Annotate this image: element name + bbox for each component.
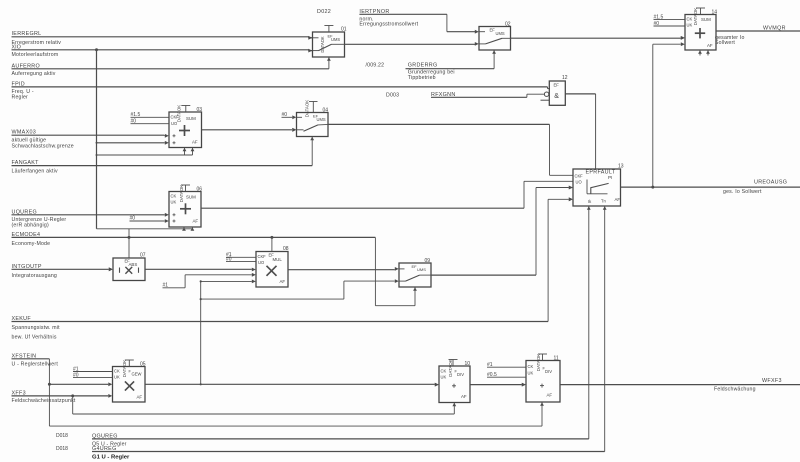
- svg-text:Economy-Mode: Economy-Mode: [12, 241, 51, 247]
- symbol U11 small plus: [540, 384, 544, 388]
- svg-text:Spannungsistw. mit: Spannungsistw. mit: [12, 325, 61, 331]
- label U6 AF: [193, 218, 199, 223]
- label U2 UMS: [496, 31, 505, 36]
- label U11 param #1: [487, 362, 493, 368]
- wire U14 output WVMQR: [716, 30, 800, 32]
- label U14 UK: [687, 23, 693, 28]
- node IERTPNOR input label: [359, 9, 418, 27]
- node junction XFSTEIN at U5 input: [48, 383, 51, 386]
- label U3 CKF: [171, 114, 180, 119]
- node INTGOUTP input label: [12, 264, 58, 279]
- wire U6 enable link line: [97, 228, 193, 230]
- svg-text:04: 04: [323, 107, 329, 113]
- label U10 AF: [461, 394, 467, 399]
- label U6 param #0: [130, 216, 136, 222]
- pin U10 input arrow: [435, 383, 439, 387]
- svg-text:WMAX03: WMAX03: [12, 129, 37, 135]
- wire U10 output to divider U11 input 3: [470, 383, 526, 387]
- node WMAX03 input label: [12, 129, 74, 149]
- label U4 designator 04: [323, 107, 329, 113]
- svg-text:bew. Uf Verhältnis: bew. Uf Verhältnis: [12, 334, 57, 340]
- pin U3 bottom arrows: [183, 148, 195, 152]
- svg-text:UK: UK: [528, 371, 534, 376]
- label U7 ABS: [129, 262, 138, 267]
- pin U13 input 4 arrow: [569, 197, 573, 201]
- node QGUREG net label: [92, 433, 127, 447]
- wire U6 top stub: [181, 185, 190, 192]
- svg-text:UK: UK: [171, 200, 177, 205]
- wire GRDERRG to switch U2 enable: [406, 50, 495, 69]
- node D003 sheet reference: [386, 92, 399, 98]
- label U11 param #0.5: [487, 372, 497, 378]
- wire vertical bus x200 down: [200, 281, 202, 384]
- svg-text:U - Reglerstellwert: U - Reglerstellwert: [12, 361, 59, 367]
- label U3 param #0: [131, 118, 137, 124]
- node junction ECMODE at U8 top: [270, 236, 273, 239]
- svg-text:08: 08: [283, 246, 289, 252]
- label U1 DATAOK: [320, 36, 325, 52]
- svg-text:CK: CK: [441, 368, 447, 373]
- pin U10 enable arrow: [452, 403, 456, 407]
- svg-text:UO: UO: [171, 121, 177, 126]
- wire U5 param #0: [73, 377, 113, 379]
- label U14 CK: [687, 17, 693, 22]
- wire U1 output to U2 input 2: [345, 42, 479, 46]
- label U8 param #1: [226, 252, 232, 258]
- wire XIO vertical branch bus: [96, 50, 98, 229]
- svg-text:03: 03: [197, 107, 203, 113]
- wire U3 param #0: [131, 123, 170, 125]
- svg-text:06: 06: [197, 186, 203, 192]
- svg-text:05: 05: [140, 361, 146, 367]
- svg-text:UK: UK: [441, 374, 447, 379]
- wire U4 output to controller U13 CKF input: [328, 124, 573, 175]
- label U9 UMS: [417, 267, 426, 272]
- svg-text:D003: D003: [386, 92, 399, 98]
- label U12 EF: [554, 83, 560, 88]
- label U5 CK: [114, 369, 120, 374]
- controller U13 PI body: [573, 169, 621, 206]
- label U3 SUM: [186, 116, 196, 121]
- label U4 param #0: [282, 112, 288, 118]
- svg-text:DATAOK: DATAOK: [305, 100, 310, 117]
- label U5 GEW: [129, 368, 142, 376]
- label U12 designator 12: [562, 75, 568, 81]
- label U3 param #1.5: [131, 112, 141, 118]
- label U2 EF: [490, 27, 496, 32]
- wire FPID to AND gate U12 input 1: [12, 87, 551, 89]
- node IERREGRL input label: [12, 31, 62, 51]
- pin U6 bottom arrows: [182, 227, 194, 231]
- svg-text:Schwachlastschw.grenze: Schwachlastschw.grenze: [12, 144, 74, 150]
- symbol U8 X: [267, 266, 277, 276]
- wire U3 param #1.5: [131, 116, 170, 118]
- wire U3 top stub: [181, 106, 190, 113]
- wire XFF3 enable line to divider U10: [73, 396, 455, 414]
- pin U1 input 2 arrow: [308, 49, 312, 53]
- svg-text:EF: EF: [490, 27, 496, 32]
- node RFXGNN net label: [431, 92, 456, 98]
- svg-text:D022: D022: [317, 9, 331, 15]
- label U14 param #0: [654, 21, 660, 27]
- wire UGUREG to adder U6 input 1: [12, 213, 169, 217]
- wire U9 output to controller U13 input 3: [431, 186, 573, 276]
- wire U8 output to switch U9 input 1: [288, 267, 399, 271]
- wire U4 param #0: [282, 115, 297, 119]
- wire U5 param #1: [73, 371, 113, 373]
- label U5 AF: [137, 395, 143, 400]
- wire U11 top stub: [538, 354, 547, 361]
- svg-text:CKF: CKF: [258, 254, 267, 259]
- label U11 AF: [547, 392, 553, 397]
- label U13 CKF: [575, 174, 584, 179]
- pin U14 bottom arrows: [698, 50, 710, 54]
- node junction bus to U9 line: [200, 298, 202, 300]
- wire FANGAKT to switch U4 enable: [12, 137, 313, 166]
- wire bus tap to switch U9 input 2: [201, 279, 399, 299]
- svg-text:SUM: SUM: [186, 116, 196, 121]
- wire ECMODE main run: [12, 236, 376, 238]
- svg-text:AF: AF: [707, 43, 713, 48]
- svg-text:UMS: UMS: [317, 117, 326, 122]
- wire U5 output to divider U10 input: [145, 383, 439, 387]
- label U13 UO: [576, 180, 582, 185]
- node param #1 label mid: [163, 282, 169, 288]
- svg-text:Feldschwächeinsatzpunkt: Feldschwächeinsatzpunkt: [12, 398, 76, 404]
- node junction XFF3 branch: [71, 394, 74, 397]
- svg-text:/009.22: /009.22: [366, 62, 385, 68]
- svg-text:01: 01: [341, 27, 347, 33]
- node UGUREG input label: [12, 209, 67, 228]
- node WVMQR output label: [715, 26, 786, 46]
- label U10 DIV: [455, 369, 465, 377]
- svg-text:UO: UO: [576, 180, 582, 185]
- label U10 UK: [441, 374, 447, 379]
- switch U9 contacts: [399, 269, 431, 281]
- node junction XIO branch: [95, 48, 98, 51]
- label U3 UO: [171, 121, 177, 126]
- svg-text:MUL: MUL: [273, 257, 283, 262]
- node D018 sheet reference 2: [56, 446, 68, 452]
- node junction ECMODE at U7 riser: [128, 236, 131, 239]
- node junction XIO bus at U3 enable line: [96, 154, 98, 156]
- wire XFSTEIN down branch: [12, 359, 50, 426]
- svg-text:CKF: CKF: [171, 114, 180, 119]
- svg-text:DATAOK: DATAOK: [693, 8, 698, 25]
- svg-text:Tippbetrieb: Tippbetrieb: [408, 75, 436, 81]
- svg-text:FANGAKT: FANGAKT: [12, 160, 40, 166]
- svg-text:CK: CK: [528, 364, 534, 369]
- symbol U6 input plus marks: [173, 213, 176, 222]
- svg-text:SUM: SUM: [186, 195, 196, 200]
- svg-text:10: 10: [465, 361, 471, 367]
- wire XFSTEIN to weighting U5 input 3: [49, 382, 112, 386]
- label U1 UMS: [328, 34, 341, 42]
- node AUFERRO input label: [12, 63, 56, 77]
- symbol U13 PI characteristic: [587, 180, 609, 194]
- label U5 UK: [114, 375, 120, 380]
- svg-text:CKF: CKF: [575, 174, 584, 179]
- label U6 DATAOK: [179, 185, 184, 202]
- node junction bus at U8 input 5: [200, 280, 202, 282]
- label U8 AF: [280, 279, 286, 284]
- svg-text:GEW: GEW: [132, 371, 142, 376]
- svg-text:&: &: [554, 93, 559, 100]
- svg-text:12: 12: [562, 75, 568, 81]
- svg-text:Tn: Tn: [601, 199, 607, 204]
- label U14 param #1.5: [654, 14, 664, 20]
- wire WMAX03 to adder U3 input 3: [12, 134, 169, 138]
- label U7 EF: [125, 258, 131, 263]
- svg-text:Läuferfangen aktiv: Läuferfangen aktiv: [12, 168, 58, 174]
- svg-text:DIV: DIV: [545, 369, 552, 374]
- wire XFF3 to weighting U5 input 4: [12, 394, 113, 398]
- svg-text:UO: UO: [258, 260, 264, 265]
- svg-text:AF: AF: [192, 139, 198, 144]
- label U4 DATAOK: [305, 100, 310, 117]
- switch U4 contacts: [297, 117, 329, 131]
- svg-text:WFXF3: WFXF3: [762, 378, 782, 384]
- svg-text:09: 09: [425, 258, 431, 264]
- svg-text:D018: D018: [56, 433, 68, 439]
- wire G4UREG to controller U13 Tn: [92, 206, 605, 452]
- label U12 ampersand: [554, 93, 559, 100]
- svg-text:UMS: UMS: [496, 31, 505, 36]
- wire INTGOUTP to ABS U7 input: [12, 267, 113, 271]
- divider U10 DIV body: [439, 366, 470, 403]
- pin U1 enable arrow: [327, 57, 331, 61]
- label U8 param #0: [226, 257, 232, 263]
- wire U2 output to adder U14 input 3: [511, 36, 685, 40]
- svg-text:AF: AF: [615, 197, 621, 202]
- wire U3 enable line: [97, 154, 193, 156]
- wire U7 top feed and U6 enable link riser: [128, 229, 130, 258]
- label U3 designator 03: [197, 107, 203, 113]
- wire U4 top stub: [309, 102, 318, 113]
- switch U2 contacts: [479, 32, 511, 44]
- label U4 UMS: [313, 114, 326, 122]
- wire IERTPNOR to switch U2 input 1: [359, 14, 478, 33]
- node G4UREG net label: [92, 446, 117, 452]
- wire U13 output UREOAUSG: [621, 186, 800, 188]
- svg-text:UMS: UMS: [331, 37, 340, 42]
- wire U11 param #0.5: [487, 376, 526, 378]
- wire U7 output to multiplier U8 input 3: [145, 268, 256, 272]
- svg-text:ges. Io Sollwert: ges. Io Sollwert: [723, 189, 762, 195]
- wire U14 param #1.5: [654, 19, 686, 21]
- pin U7 input arrow: [109, 267, 113, 271]
- node junction XIO bus at U3 input 4: [96, 142, 98, 144]
- pin U13 bottom arrows Ik Tn: [587, 206, 607, 210]
- pin U9 enable arrow: [413, 287, 417, 291]
- pin U13 input 3 arrow: [569, 186, 573, 190]
- node D022 sheet reference: [317, 9, 331, 15]
- svg-text:UMS: UMS: [417, 267, 426, 272]
- symbol U10 small plus: [452, 384, 456, 388]
- svg-text:AF: AF: [547, 392, 553, 397]
- label U6 SUM: [186, 195, 196, 200]
- svg-text:CK: CK: [171, 194, 177, 199]
- switch U1 UMS body: [313, 32, 345, 57]
- label U3 DATAOK: [177, 105, 182, 122]
- label U9 designator 09: [425, 258, 431, 264]
- svg-text:UK: UK: [687, 23, 693, 28]
- wire QGUREG to controller U13 Ik: [92, 206, 589, 439]
- svg-text:CK: CK: [114, 369, 120, 374]
- adder U6 SUM body: [169, 192, 201, 228]
- svg-text:DIV: DIV: [457, 372, 464, 377]
- label U14 SUM: [701, 17, 711, 22]
- svg-text:EF: EF: [554, 83, 560, 88]
- label U8 CKF: [258, 254, 267, 259]
- label U13 AF: [615, 197, 621, 202]
- node G1 U Regler label bold: [92, 454, 130, 460]
- label U1 designator 01: [341, 27, 347, 33]
- wire U6 output to controller U13 UO input: [201, 181, 573, 208]
- svg-text:Ik: Ik: [588, 199, 592, 204]
- svg-text:13: 13: [618, 164, 624, 170]
- svg-text:WVMQR: WVMQR: [763, 26, 786, 32]
- symbol U14 plus: [695, 28, 705, 38]
- switch U1 contacts: [313, 38, 345, 51]
- node junction U13 output feedback: [651, 186, 654, 189]
- pin U4 enable arrow: [310, 137, 314, 141]
- svg-text:ABS: ABS: [129, 262, 138, 267]
- node XFF3 input label: [12, 390, 76, 404]
- label U13 EPRFAULT: [586, 170, 616, 176]
- wire U1 top stub: [324, 26, 333, 33]
- svg-text:02: 02: [505, 22, 511, 28]
- label U8 MUL: [273, 257, 283, 262]
- svg-text:14: 14: [712, 9, 718, 15]
- label U8 EF: [269, 253, 275, 258]
- wire RFXGNN to AND gate U12 inverted input: [431, 94, 544, 97]
- node XFSTEIN input label: [12, 353, 59, 367]
- label U14 DATAOK: [693, 8, 698, 25]
- pin U12 spare input stub: [541, 99, 550, 101]
- svg-text:07: 07: [140, 252, 146, 258]
- label U14 designator 14: [712, 9, 718, 15]
- pin U14 input 3 arrow: [681, 36, 685, 40]
- svg-text:AF: AF: [193, 218, 199, 223]
- wire ECMODE drop to multiplier U8 top: [271, 237, 273, 251]
- wire XIO bus tap to adder U3 input 4: [97, 141, 169, 145]
- wire IERREGRL to switch U1 input 1: [12, 37, 313, 38]
- svg-text:(erR abhängig): (erR abhängig): [12, 223, 49, 229]
- svg-text:IERREGRL: IERREGRL: [12, 31, 42, 37]
- label U5 param #0: [73, 372, 79, 378]
- wire U8 param #1: [226, 256, 256, 258]
- node ECMODE input label: [12, 232, 51, 247]
- pin U2 enable arrow: [492, 50, 496, 54]
- label U11 DIV: [543, 366, 553, 374]
- svg-text:D018: D018: [56, 446, 68, 452]
- wire U8 input 5 from bus: [201, 280, 256, 284]
- label U8 designator 08: [283, 246, 289, 252]
- svg-text:DATAOK: DATAOK: [122, 360, 127, 377]
- label U3 AF: [192, 139, 198, 144]
- label U11 DATAOK: [536, 354, 541, 371]
- wire AUFERRO to switch U1 enable: [12, 57, 329, 69]
- svg-text:Integratorausgang: Integratorausgang: [12, 273, 58, 279]
- label U13 designator 13: [618, 164, 624, 170]
- label U6 UK: [171, 200, 177, 205]
- symbol U7 absolute value: [120, 267, 139, 274]
- symbol U12 inverter circle: [544, 92, 548, 96]
- label U13 Ik: [588, 199, 592, 204]
- svg-text:CK: CK: [687, 17, 693, 22]
- wire ECMODE drop to switch U9 enable: [375, 237, 415, 305]
- svg-text:UREOAUSG: UREOAUSG: [754, 180, 787, 186]
- node junction bus at U5 output line: [200, 383, 202, 385]
- label U2 designator 02: [505, 22, 511, 28]
- multiplier U8 MUL body: [256, 252, 288, 288]
- wire U6 bottom stubs: [184, 227, 192, 229]
- wire U10 top stub: [449, 360, 458, 367]
- label U11 designator 11: [554, 355, 559, 361]
- symbol U6 plus: [180, 203, 191, 214]
- node XIO Motorleerlaufstrom label: [12, 52, 59, 58]
- switch U4 UMS body: [297, 113, 329, 137]
- node FPID input label: [12, 81, 34, 100]
- svg-text:DATAOK: DATAOK: [448, 359, 453, 376]
- wire U14 param #0: [654, 25, 686, 27]
- node FANGAKT input label: [12, 160, 58, 175]
- wire U14 bottom stubs: [700, 50, 708, 56]
- node /009.22 sheet reference: [366, 62, 385, 68]
- label U6 designator 06: [197, 186, 203, 192]
- wire XEKUF to controller U13 input 4: [12, 197, 573, 321]
- wire U11 output WFXF3: [560, 384, 800, 386]
- svg-text:PI: PI: [608, 175, 612, 180]
- svg-text:Regler: Regler: [12, 94, 29, 100]
- wire U5 top stub: [125, 360, 134, 367]
- label U5 designator 05: [140, 361, 146, 367]
- svg-text:SUM: SUM: [701, 17, 711, 22]
- label U11 UK: [528, 371, 534, 376]
- node UREOAUSG output label: [723, 180, 787, 195]
- wire U3 bottom stubs: [185, 148, 193, 156]
- pin U4 input 2 arrow: [292, 128, 296, 132]
- wire XFSTEIN enable line to divider U11: [49, 402, 542, 426]
- abs U7 body: [113, 258, 145, 281]
- AND gate U12 body: [549, 81, 565, 105]
- svg-text:Motorleerlaufstrom: Motorleerlaufstrom: [12, 52, 59, 58]
- symbol U5 X: [125, 381, 134, 390]
- label U5 param #1: [73, 366, 79, 372]
- wire U12 output to controller U13 top: [565, 94, 595, 169]
- wire WMAX03 tail: [163, 134, 166, 137]
- switch U9 UMS body: [399, 263, 431, 287]
- label U14 AF: [707, 43, 713, 48]
- svg-text:G1 U - Regler: G1 U - Regler: [92, 454, 130, 460]
- label U8 UO: [258, 260, 264, 265]
- label U7 designator 07: [140, 252, 146, 258]
- svg-text:Feldschwächung: Feldschwächung: [714, 387, 756, 393]
- svg-text:11: 11: [554, 355, 559, 361]
- node GRDERRG net label: [408, 62, 455, 81]
- label U10 designator 10: [465, 361, 471, 367]
- pin U11 input 3 arrow: [522, 383, 526, 387]
- switch U2 UMS body: [479, 27, 511, 51]
- wire U3 output to switch U4 input 2: [202, 128, 297, 132]
- label U5 DATAOK: [122, 360, 127, 377]
- wire feedback riser to adder U14 input 4: [653, 42, 685, 187]
- wire U11 param #1: [487, 366, 526, 368]
- svg-text:DATAOK: DATAOK: [536, 354, 541, 371]
- svg-text:GRDERRG: GRDERRG: [408, 62, 438, 68]
- svg-text:aktuell gültige: aktuell gültige: [12, 138, 47, 144]
